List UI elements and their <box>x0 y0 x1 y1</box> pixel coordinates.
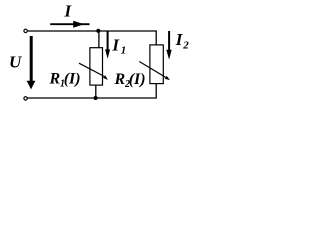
current arrow I2 <box>166 31 171 60</box>
svg-text:U: U <box>9 52 22 71</box>
wire: bottom rail from terminal to bottom-right corner, up to R2 <box>28 84 157 98</box>
node A: junction dot top <box>96 29 100 33</box>
resistor R2 box <box>150 45 163 84</box>
terminal top-left <box>24 29 27 32</box>
resistor R1 box <box>90 48 103 85</box>
current arrow I <box>50 21 89 28</box>
voltage arrow U <box>27 36 36 89</box>
svg-text:I: I <box>111 35 120 54</box>
svg-text:2: 2 <box>182 39 189 51</box>
svg-text:I: I <box>64 1 73 20</box>
node B: junction dot bottom <box>94 96 98 100</box>
svg-text:R: R <box>49 71 61 88</box>
wire: top rail from terminal to top-right corner, down to R2 <box>28 31 157 45</box>
svg-text:(I): (I) <box>129 71 146 88</box>
terminal bottom-left <box>24 97 27 100</box>
wire: branch 1 bottom stub <box>95 85 97 98</box>
current arrow I1 <box>105 31 110 59</box>
svg-text:(I): (I) <box>64 71 81 88</box>
R2 nonlinearity arrow <box>139 62 170 81</box>
wire: branch 1 top stub <box>98 31 100 48</box>
svg-text:1: 1 <box>121 45 127 57</box>
R1 nonlinearity arrow <box>79 63 108 80</box>
svg-text:R: R <box>114 71 126 88</box>
